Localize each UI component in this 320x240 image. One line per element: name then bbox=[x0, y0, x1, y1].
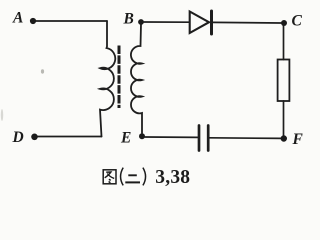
svg-text:3,38: 3,38 bbox=[155, 167, 190, 188]
svg-text:C: C bbox=[292, 13, 303, 30]
svg-text:B: B bbox=[123, 11, 134, 28]
svg-text:F: F bbox=[292, 131, 304, 148]
svg-text:A: A bbox=[12, 10, 23, 27]
svg-text:D: D bbox=[12, 129, 24, 146]
svg-text:E: E bbox=[120, 130, 131, 147]
